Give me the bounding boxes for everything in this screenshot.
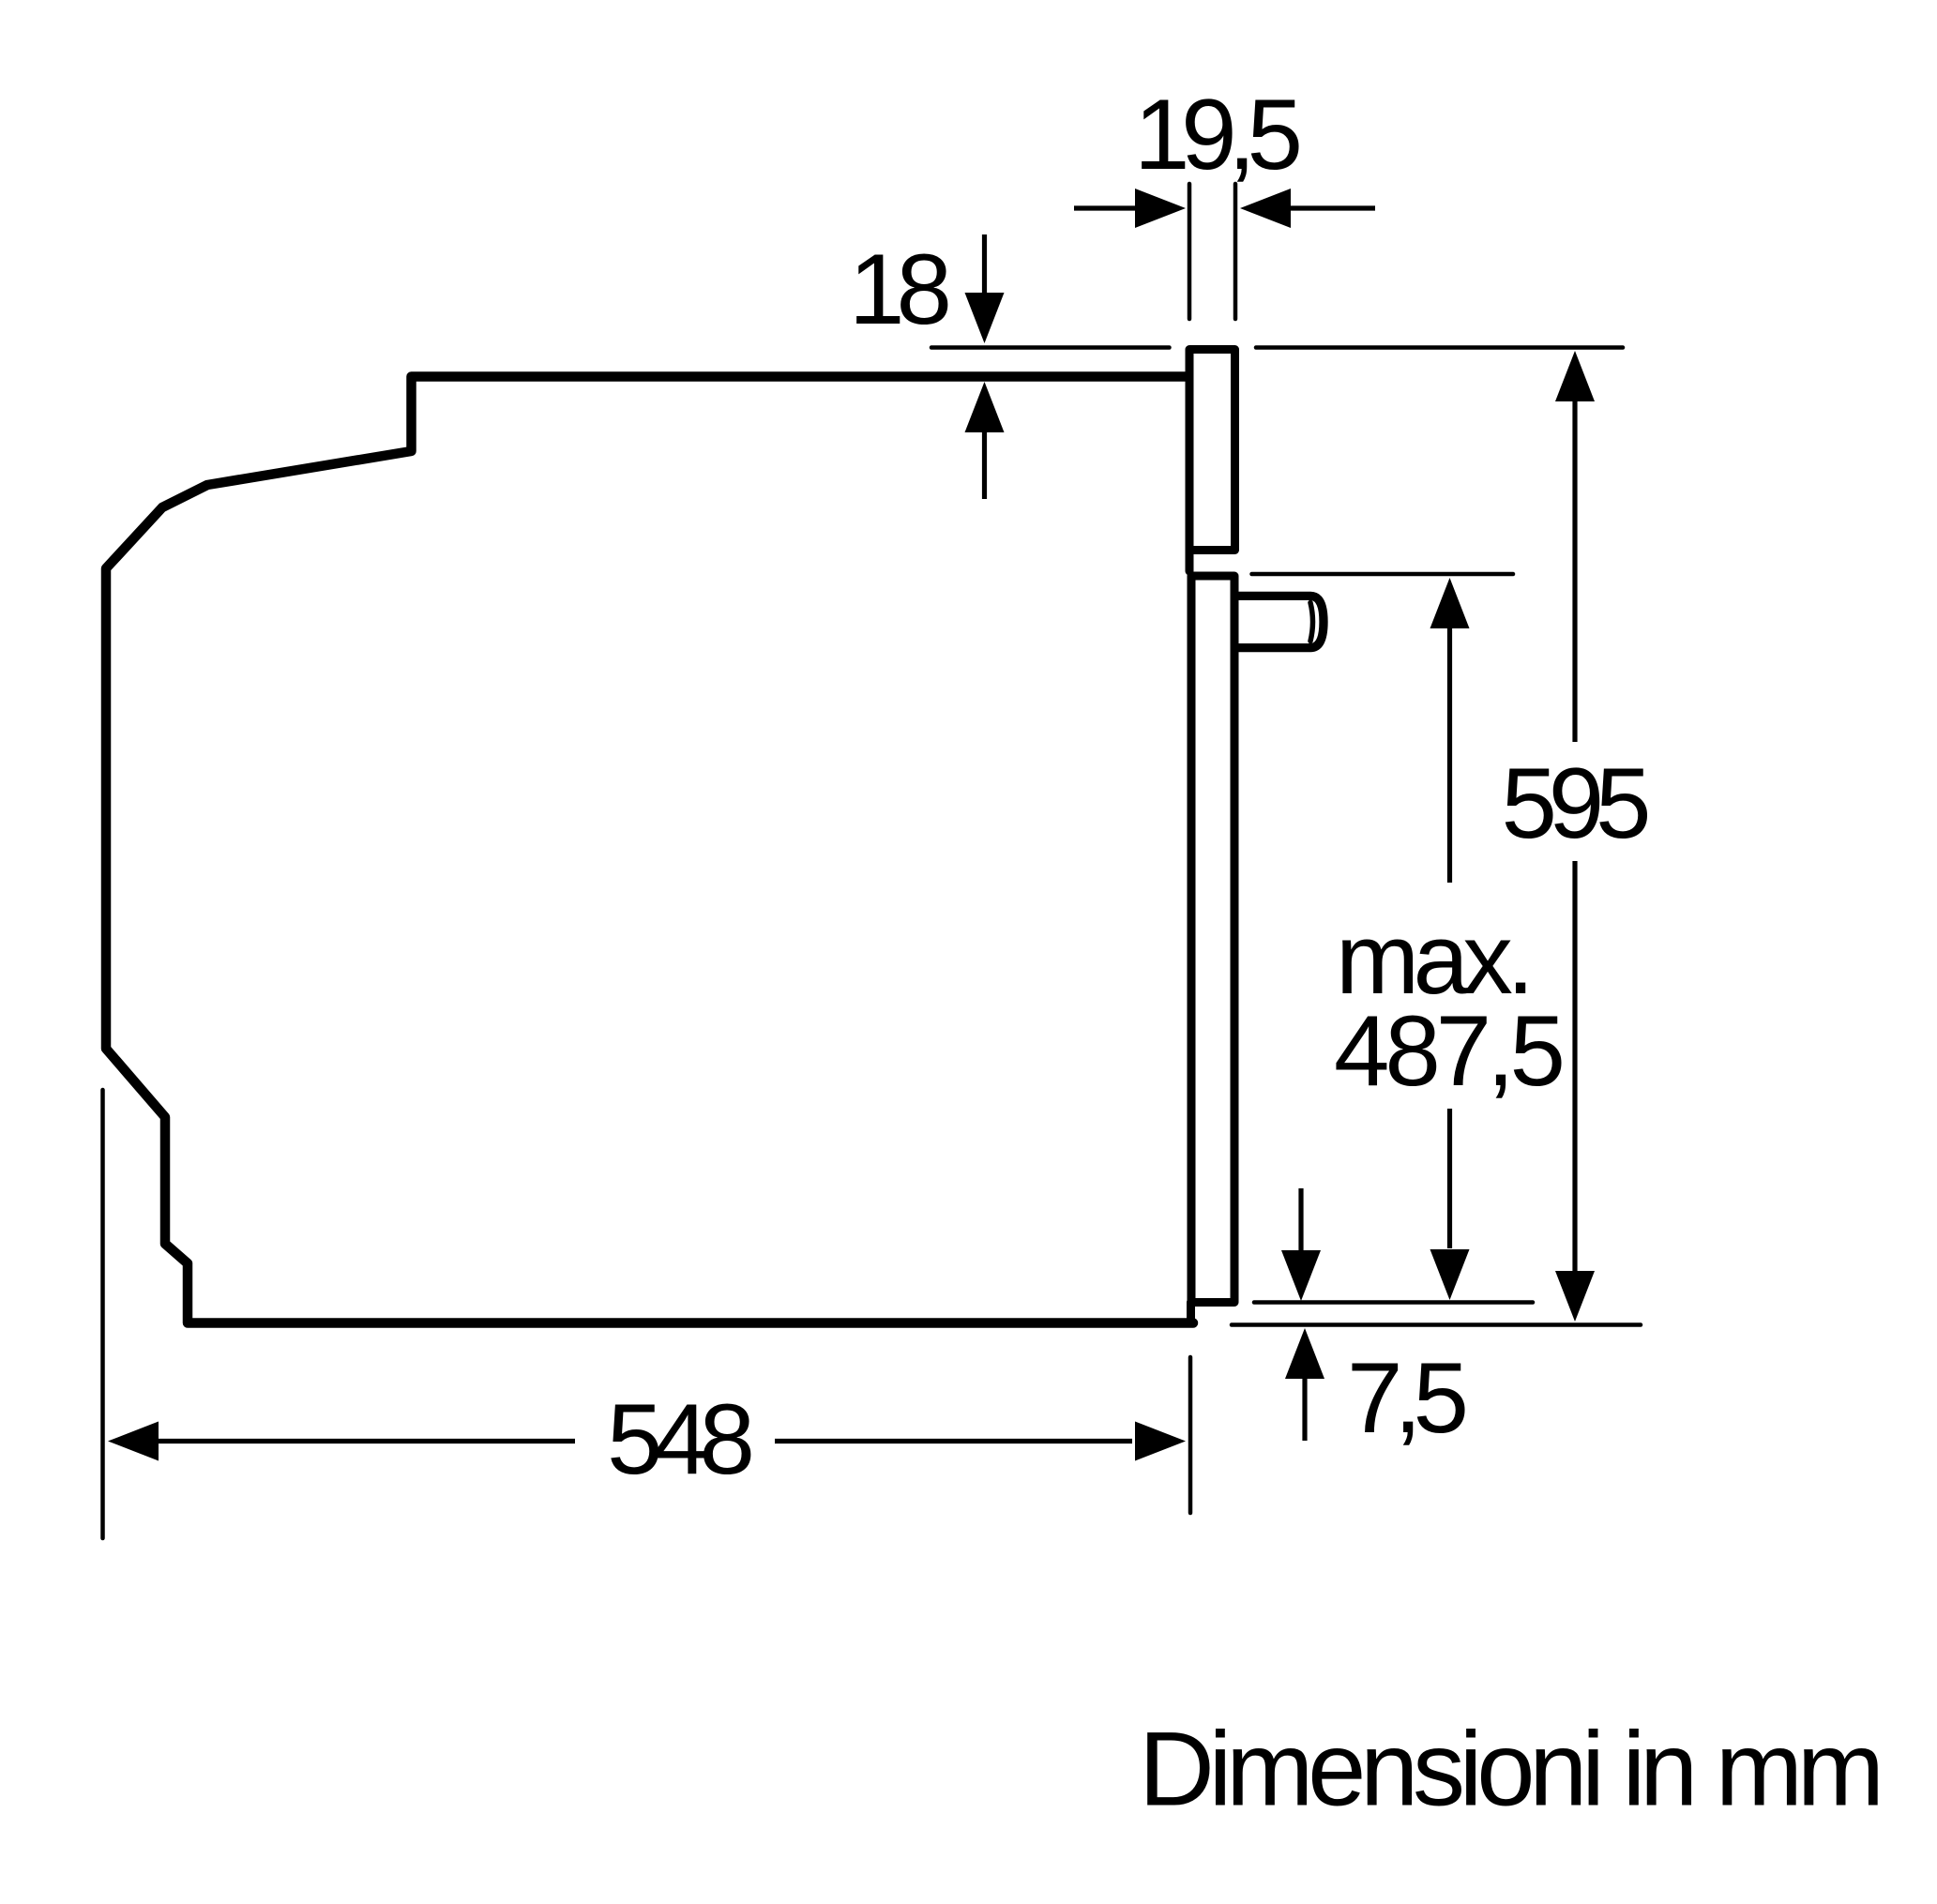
svg-text:19,5: 19,5 bbox=[1134, 78, 1303, 190]
svg-text:7,5: 7,5 bbox=[1347, 1341, 1469, 1454]
svg-text:487,5: 487,5 bbox=[1334, 994, 1566, 1107]
svg-text:595: 595 bbox=[1502, 747, 1652, 859]
svg-text:18: 18 bbox=[849, 233, 952, 345]
svg-text:548: 548 bbox=[607, 1383, 755, 1495]
svg-text:Dimensioni in mm: Dimensioni in mm bbox=[1139, 1711, 1884, 1828]
